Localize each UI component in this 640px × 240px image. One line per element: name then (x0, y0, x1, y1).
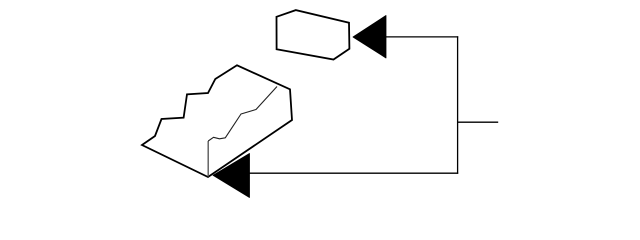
stepped block S1 inner vertical edge (207, 141, 209, 177)
wire right vertical (457, 36, 459, 174)
arrowhead A1 (353, 16, 386, 59)
arrowhead A2 (213, 154, 250, 198)
stepped block S1 outline (142, 65, 292, 177)
wire top horizontal (386, 36, 458, 38)
wire bottom horizontal (250, 172, 459, 174)
hexagon block B1 (277, 10, 350, 59)
stepped block S1 inner zigzag edge (208, 87, 277, 142)
wire stub right (458, 121, 499, 123)
